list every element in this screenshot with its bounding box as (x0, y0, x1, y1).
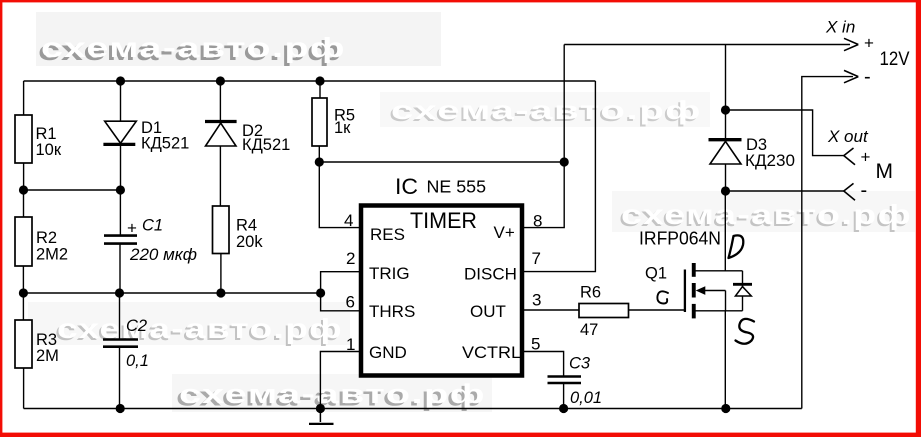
node bottom GND (316, 404, 325, 413)
svg-text:TIMER: TIMER (410, 208, 477, 233)
node top rail D1 (116, 76, 125, 85)
wire X out minus (726, 190, 844, 192)
node B R4 (216, 288, 225, 297)
svg-text:2: 2 (346, 249, 355, 268)
svg-text:-: - (861, 180, 868, 202)
svg-text:M: M (876, 160, 894, 183)
wire D1 top (120, 81, 122, 122)
svg-text:THRS: THRS (369, 302, 415, 321)
svg-text:+: + (864, 34, 874, 53)
node B C2 (115, 288, 124, 297)
wire drain horizontal (695, 270, 743, 272)
handwritten D label (729, 235, 744, 258)
wire V+ rail (319, 161, 564, 163)
node V+ rail right (560, 157, 569, 166)
svg-text:6: 6 (346, 293, 355, 312)
wire C2 bottom (119, 348, 121, 409)
op-amp/timer IC U1 NE555 box (361, 206, 522, 376)
wire horizontal node A row (24, 189, 121, 191)
body diode of Q1 (733, 284, 752, 296)
svg-text:OUT: OUT (470, 302, 506, 321)
svg-text:RES: RES (370, 225, 405, 244)
wire D2 to R4 (219, 145, 221, 206)
watermark text 3 схема-авто.рф (619, 199, 912, 232)
svg-text:-: - (864, 66, 871, 88)
svg-text:VCTRL: VCTRL (462, 343, 521, 362)
wire horizontal node B row (23, 292, 320, 294)
wire GND branch (320, 352, 359, 409)
resistor R4 (213, 206, 230, 254)
wire source horizontal (695, 310, 743, 312)
svg-text:схема-авто.рф: схема-авто.рф (179, 379, 486, 409)
svg-text:2M: 2M (36, 347, 59, 365)
capacitor C2 (103, 317, 149, 370)
svg-text:C1: C1 (142, 217, 163, 235)
svg-text:DISCH: DISCH (464, 265, 517, 284)
svg-text:V+: V+ (494, 223, 515, 242)
diode D1 КД521 (103, 119, 189, 153)
svg-text:3: 3 (532, 291, 541, 310)
handwritten S label (736, 319, 755, 344)
resistor R5 (312, 98, 327, 146)
watermark band 3 (612, 191, 915, 232)
svg-text:C3: C3 (569, 355, 591, 373)
node A left (19, 185, 28, 194)
svg-text:1: 1 (346, 335, 355, 354)
wire R4 to node B row (220, 254, 222, 294)
wire 12V minus (802, 77, 853, 409)
wire source vertical (724, 311, 726, 409)
wire bottom rail (24, 408, 802, 410)
watermark band 1 (36, 12, 441, 66)
svg-text:0,1: 0,1 (126, 352, 149, 370)
svg-text:7: 7 (532, 249, 541, 268)
svg-text:X out: X out (827, 127, 869, 146)
node bottom C3 (559, 404, 568, 413)
wire top rail (24, 80, 596, 82)
svg-text:1к: 1к (334, 119, 351, 137)
node bottom source (721, 404, 730, 413)
watermark text 4 схема-авто.рф (55, 313, 343, 346)
diode D3 КД230 (709, 136, 796, 170)
svg-text:+: + (861, 148, 871, 167)
diode D2 КД521 (205, 122, 290, 155)
svg-text:4: 4 (344, 211, 353, 230)
svg-text:12V: 12V (880, 49, 910, 70)
wire drain vertical (724, 191, 726, 271)
node top rail D2 (216, 76, 225, 85)
wire body diode vertical (742, 271, 744, 311)
svg-text:0,01: 0,01 (570, 389, 602, 407)
X in arrowhead (844, 38, 858, 50)
node top rail R5 (315, 76, 324, 85)
svg-text:Q1: Q1 (645, 265, 667, 283)
transistor Q1 IRFP064N (639, 228, 726, 319)
svg-text:8: 8 (533, 212, 542, 231)
wire R1 to node A (23, 163, 25, 190)
node B left (19, 288, 28, 297)
node A D1/C1 (116, 185, 125, 194)
wire DISCH vertical (523, 81, 595, 272)
resistor R2 (15, 217, 32, 266)
svg-text:схема-авто.рф: схема-авто.рф (621, 199, 912, 230)
svg-text:2M2: 2M2 (36, 246, 68, 264)
wire X in (564, 44, 850, 46)
watermark text 2 схема-авто.рф (389, 95, 702, 127)
svg-text:схема-авто.рф: схема-авто.рф (391, 95, 702, 125)
svg-text:IRFP064N: IRFP064N (639, 228, 721, 249)
resistor R3 (15, 320, 32, 368)
svg-text:220 мкф: 220 мкф (129, 246, 197, 264)
watermark band 2 (380, 92, 710, 127)
svg-text:NE 555: NE 555 (427, 177, 487, 197)
wire D1 bottom (120, 144, 122, 190)
wire R5 bottom (318, 146, 320, 162)
12V minus arrowhead (844, 70, 858, 82)
capacitor C3 (548, 355, 603, 408)
svg-text:X in: X in (825, 18, 855, 37)
svg-text:КД230: КД230 (745, 152, 795, 170)
node B TRIG/THRS (316, 288, 325, 297)
ground (309, 409, 334, 424)
wire TRIG branch (321, 272, 360, 311)
svg-text:КД521: КД521 (242, 136, 290, 154)
wire C1 top (119, 190, 121, 235)
resistor R6 (579, 304, 629, 318)
svg-text:20k: 20k (236, 233, 263, 251)
wire C2 top (119, 293, 121, 339)
svg-text:GND: GND (369, 343, 407, 362)
svg-text:R6: R6 (580, 284, 601, 302)
X out plus chevron (844, 148, 855, 165)
wire D2 top (219, 81, 221, 122)
svg-text:R4: R4 (236, 217, 257, 235)
capacitor C1 (104, 217, 197, 265)
resistor R1 (15, 115, 32, 163)
node D3 bottom (721, 186, 730, 195)
watermark band 5 (172, 374, 492, 412)
svg-text:+: + (127, 219, 137, 238)
svg-text:47: 47 (580, 321, 598, 339)
wire D3 top vertical (725, 45, 727, 139)
node dots (19, 76, 731, 413)
wire pin4 branch (319, 162, 359, 228)
handwritten G label (657, 291, 668, 303)
wire VCTRL branch (523, 352, 564, 376)
wire X in vertical (563, 45, 565, 163)
wire OUT to R6 (523, 309, 579, 311)
X out minus chevron (844, 183, 855, 200)
svg-text:10к: 10к (36, 141, 62, 159)
wire R6 to gate (629, 309, 685, 311)
wire bulk connection (725, 291, 727, 311)
node V+ rail left (315, 157, 324, 166)
wire pin8 branch (523, 162, 564, 228)
wire C3 bottom (563, 384, 565, 409)
svg-text:5: 5 (531, 335, 540, 354)
wire node B to R3 (22, 293, 24, 320)
watermark band 4 (28, 302, 350, 345)
svg-text:TRIG: TRIG (369, 264, 410, 283)
wire R2 to node B (22, 266, 24, 293)
wire C1 bottom (119, 245, 121, 294)
node D3 top (721, 105, 730, 114)
wire R3 to bottom rail (23, 368, 25, 409)
svg-text:IC: IC (395, 174, 418, 199)
svg-text:C2: C2 (126, 317, 147, 335)
wire node A to R2 (23, 190, 25, 217)
svg-text:схема-авто.рф: схема-авто.рф (57, 313, 343, 344)
wire R5 top (319, 81, 321, 98)
svg-text:КД521: КД521 (141, 135, 189, 153)
wire left column R1 branch (23, 81, 25, 115)
node bottom C2 (116, 404, 125, 413)
wire D3 bottom (725, 164, 727, 191)
watermark text 1 схема-авто.рф (38, 32, 346, 66)
svg-text:R2: R2 (36, 229, 57, 247)
wire X out plus (726, 110, 844, 156)
watermark text 5 схема-авто.рф (176, 379, 486, 412)
svg-text:схема-авто.рф: схема-авто.рф (41, 32, 346, 63)
